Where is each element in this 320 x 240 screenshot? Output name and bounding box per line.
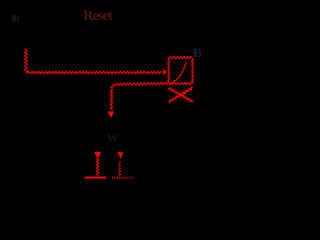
left pin marker zigzag lead	[96, 159, 99, 175]
right pin terminal dotted bar	[112, 177, 133, 179]
X mark (deleted part) stroke 2	[170, 87, 192, 102]
right pin marker triangle lead	[119, 161, 122, 176]
curved arrow from box down-left (curve inside box)	[172, 62, 186, 82]
svg-text:1B: 1B	[191, 45, 202, 60]
left pin marker arrowhead	[94, 152, 101, 159]
left pin terminal bar	[85, 177, 107, 179]
svg-text:W: W	[107, 132, 118, 144]
svg-text:Reset: Reset	[83, 8, 113, 24]
curved arrow horizontal and down stem	[110, 82, 168, 109]
wire highlight from J1 to box	[25, 49, 162, 74]
arrowhead pointing right into box	[163, 69, 168, 75]
arrowhead pointing down at node	[108, 111, 115, 117]
svg-text:110: 110	[10, 14, 19, 25]
annotation box around component	[168, 57, 194, 85]
X mark (deleted part) stroke 1	[168, 88, 192, 101]
right pin marker arrowhead	[117, 152, 123, 159]
